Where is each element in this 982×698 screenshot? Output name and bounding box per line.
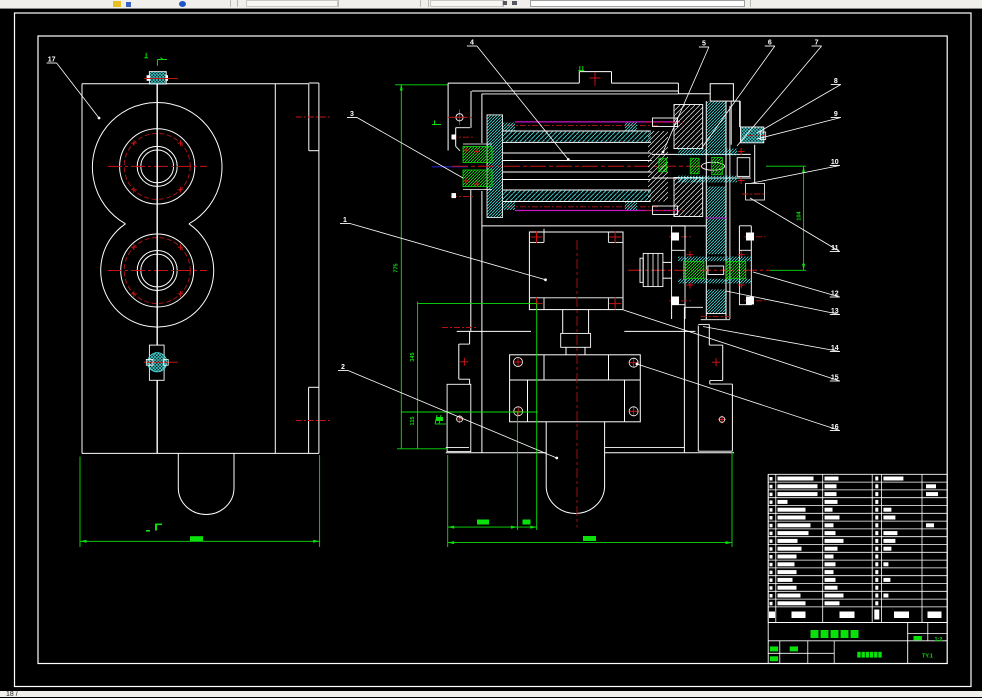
svg-text:4: 4 xyxy=(470,40,474,47)
svg-text:9: 9 xyxy=(834,111,838,118)
svg-text:3: 3 xyxy=(350,111,354,118)
svg-text:7: 7 xyxy=(815,40,819,47)
svg-text:5: 5 xyxy=(702,41,706,48)
svg-text:6: 6 xyxy=(768,40,772,47)
svg-text:345: 345 xyxy=(410,352,416,361)
svg-text:2: 2 xyxy=(341,364,345,371)
svg-text:17: 17 xyxy=(48,57,56,64)
svg-text:10: 10 xyxy=(831,159,839,166)
svg-text:1:2: 1:2 xyxy=(935,637,943,643)
svg-text:TY.1: TY.1 xyxy=(922,654,933,660)
svg-text:104: 104 xyxy=(797,210,803,220)
svg-text:1: 1 xyxy=(343,217,347,224)
svg-text:775: 775 xyxy=(394,263,400,272)
svg-text:8: 8 xyxy=(834,78,838,85)
svg-text:115: 115 xyxy=(410,417,416,426)
